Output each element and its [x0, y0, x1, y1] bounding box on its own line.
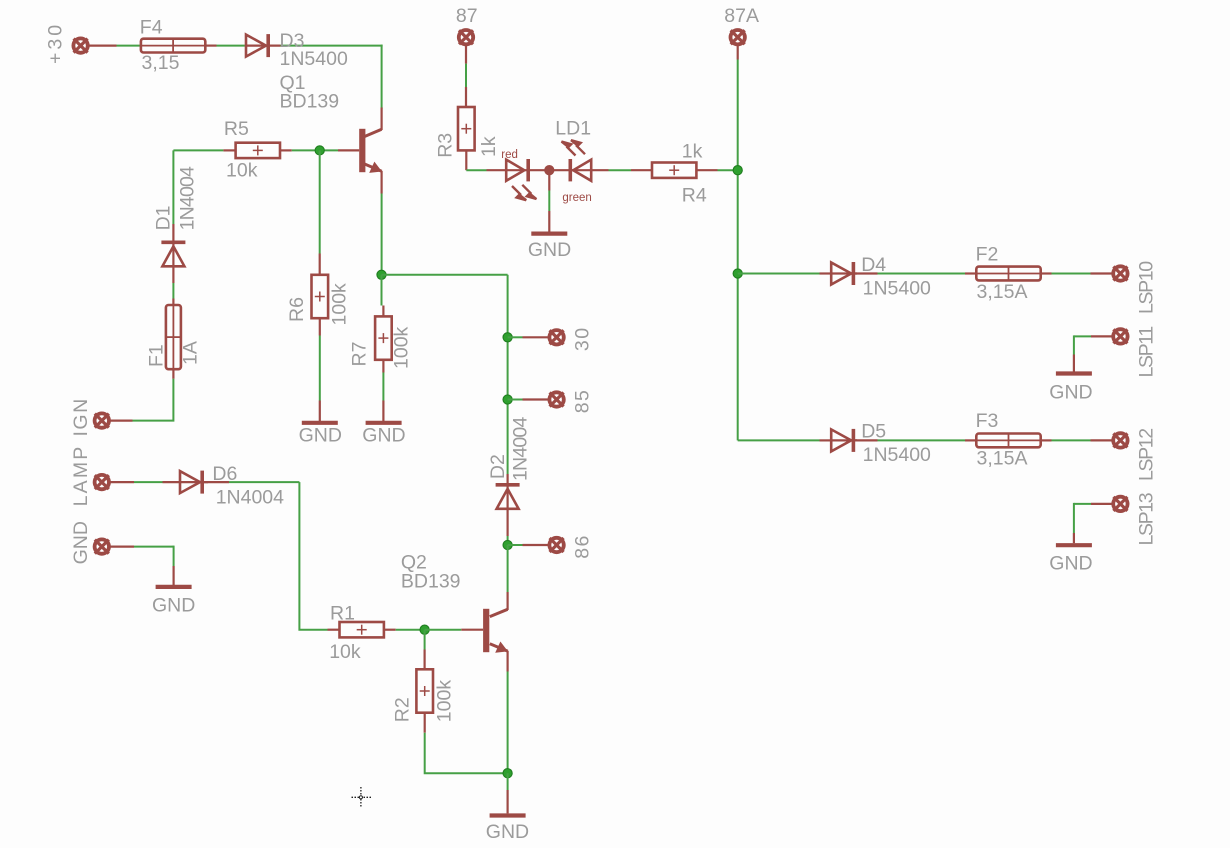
svg-text:1N5400: 1N5400: [863, 277, 931, 299]
svg-text:LAMP: LAMP: [70, 444, 92, 506]
svg-text:D5: D5: [861, 421, 886, 443]
svg-text:85: 85: [571, 389, 593, 414]
svg-text:LSP10: LSP10: [1135, 261, 1157, 314]
svg-text:3,15A: 3,15A: [977, 448, 1028, 470]
svg-text:30: 30: [571, 326, 593, 351]
svg-text:3,15A: 3,15A: [977, 281, 1028, 303]
svg-text:GND: GND: [299, 425, 342, 447]
svg-text:D4: D4: [861, 254, 886, 276]
svg-text:1A: 1A: [180, 341, 202, 365]
svg-text:GND: GND: [152, 594, 195, 616]
svg-text:3,15: 3,15: [142, 52, 180, 74]
svg-text:1k: 1k: [478, 136, 500, 157]
svg-text:GND: GND: [1049, 553, 1092, 575]
svg-text:R1: R1: [330, 602, 355, 624]
svg-text:GND: GND: [1049, 382, 1092, 404]
svg-text:R5: R5: [224, 118, 249, 140]
svg-text:86: 86: [571, 534, 593, 559]
svg-text:1N5400: 1N5400: [863, 444, 931, 466]
svg-text:10k: 10k: [329, 641, 361, 663]
svg-text:BD139: BD139: [401, 571, 461, 593]
svg-text:LSP13: LSP13: [1135, 493, 1157, 545]
svg-text:LSP12: LSP12: [1135, 429, 1157, 481]
svg-text:+30: +30: [45, 22, 67, 64]
svg-text:87: 87: [456, 5, 478, 27]
svg-text:red: red: [501, 149, 518, 161]
svg-text:green: green: [562, 192, 591, 204]
svg-text:100k: 100k: [434, 680, 456, 723]
svg-text:1N4004: 1N4004: [177, 166, 199, 230]
svg-text:R2: R2: [392, 697, 414, 722]
svg-text:R6: R6: [286, 297, 308, 322]
svg-text:GND: GND: [528, 239, 571, 261]
svg-text:1k: 1k: [682, 141, 703, 163]
svg-text:LSP11: LSP11: [1135, 327, 1157, 378]
svg-text:R3: R3: [435, 133, 457, 158]
svg-text:F4: F4: [140, 17, 163, 39]
svg-text:100k: 100k: [328, 283, 350, 326]
svg-text:GND: GND: [486, 821, 529, 843]
svg-text:R4: R4: [682, 185, 707, 207]
svg-text:IGN: IGN: [70, 397, 92, 436]
svg-text:100k: 100k: [390, 326, 412, 369]
svg-text:F3: F3: [976, 410, 999, 432]
svg-text:F1: F1: [145, 344, 167, 367]
svg-text:D6: D6: [212, 463, 237, 485]
svg-text:BD139: BD139: [280, 91, 340, 113]
svg-text:F2: F2: [976, 243, 999, 265]
svg-text:1N4004: 1N4004: [510, 417, 532, 481]
svg-text:GND: GND: [362, 425, 405, 447]
svg-text:GND: GND: [70, 521, 92, 564]
svg-text:1N5400: 1N5400: [280, 48, 348, 70]
svg-text:LD1: LD1: [555, 117, 591, 139]
svg-text:D1: D1: [152, 205, 174, 230]
svg-text:D2: D2: [487, 454, 509, 479]
svg-text:R7: R7: [348, 342, 370, 367]
svg-text:87A: 87A: [724, 5, 759, 27]
svg-text:10k: 10k: [226, 160, 258, 182]
svg-text:1N4004: 1N4004: [216, 486, 284, 508]
